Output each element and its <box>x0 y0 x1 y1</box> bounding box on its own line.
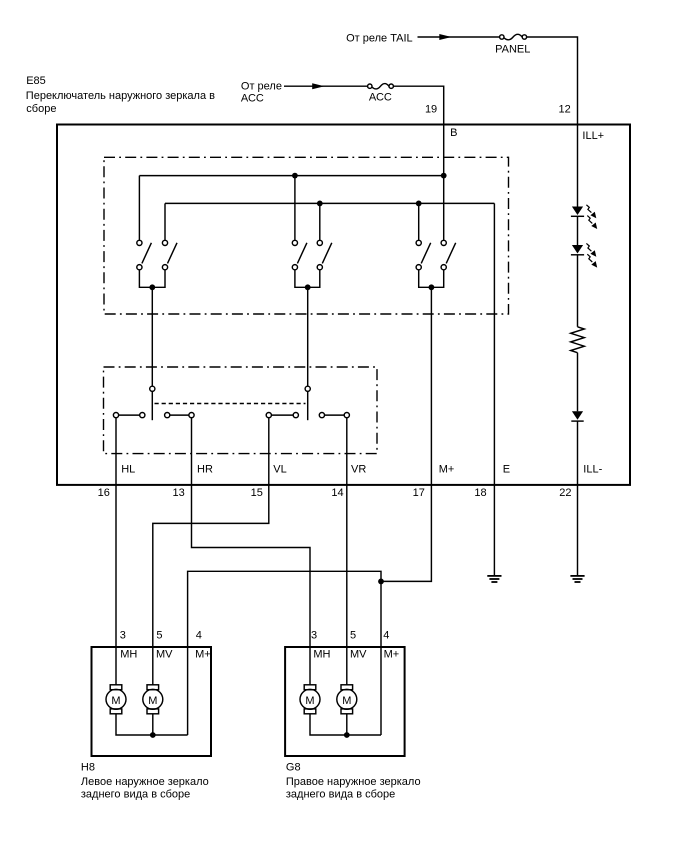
wire: right pin3 into motor MH <box>309 647 311 685</box>
svg-text:M+: M+ <box>384 649 400 661</box>
svg-text:17: 17 <box>413 487 425 499</box>
mirror H8 box <box>92 647 212 756</box>
LED D1 light arrows <box>586 205 597 229</box>
svg-text:От реле TAIL: От реле TAIL <box>346 33 413 45</box>
svg-text:E: E <box>503 464 510 476</box>
svg-text:13: 13 <box>173 487 185 499</box>
wire: pin 14 to right mirror pin 5 <box>346 485 348 646</box>
junction: switch group 2 common <box>305 284 311 290</box>
junction on bus B at switch 2 <box>292 173 298 179</box>
svg-text:Правое наружное зеркало: Правое наружное зеркало <box>286 776 421 788</box>
ground: E <box>487 576 501 582</box>
fuse ACC element <box>372 84 389 89</box>
wire: HR down to pin 13 <box>191 418 193 485</box>
fuse ACC right terminal <box>389 84 393 88</box>
switch group 2 (horizontal right) contacts <box>292 240 332 270</box>
fuse PANEL right terminal <box>522 35 526 39</box>
wire: M+ vertical to pin 17 <box>430 287 432 485</box>
svg-text:M: M <box>342 695 351 707</box>
motor MH right <box>300 685 320 714</box>
svg-text:15: 15 <box>251 487 263 499</box>
junction: switch group 3 common <box>429 284 435 290</box>
wire: pin 13 to right mirror pin 3 <box>192 485 311 646</box>
svg-text:18: 18 <box>474 487 486 499</box>
wire: E drop to switch 1 right <box>164 203 166 240</box>
junction: switch group 1 common <box>149 284 155 290</box>
dash-dot box: mirror select switch section <box>104 367 378 454</box>
svg-text:4: 4 <box>383 629 389 641</box>
wire: pin 16 to left mirror pin 3 <box>115 485 117 646</box>
pole1 left throw contacts <box>113 413 144 418</box>
resistor R (illumination) <box>571 327 585 353</box>
wire: bus B horizontal <box>139 175 443 177</box>
wire: B drop to switch 1 left <box>138 176 140 241</box>
svg-text:АСС: АСС <box>369 91 392 103</box>
select switch pole 2 terminal <box>305 386 310 391</box>
svg-text:ILL-: ILL- <box>583 464 602 476</box>
arrow: ACC direction arrow <box>312 83 324 89</box>
wire: switch group 3 common <box>419 270 444 288</box>
svg-text:M: M <box>111 695 120 707</box>
wire: bus E horizontal <box>165 202 494 204</box>
wire: PANEL fuse to ILL+ corner <box>527 37 578 124</box>
wire: left pin3 into motor MH <box>115 647 117 685</box>
svg-text:Левое наружное зеркало: Левое наружное зеркало <box>81 776 209 788</box>
wire: TAIL feed line <box>418 36 500 38</box>
wire: pin 17 M+ distribution <box>188 485 432 646</box>
svg-text:M+: M+ <box>195 649 211 661</box>
junction on bus B at B wire <box>441 173 447 179</box>
wire: switch group 1 common <box>139 270 165 288</box>
svg-text:От реле: От реле <box>241 80 282 92</box>
svg-text:5: 5 <box>350 629 356 641</box>
wire: ACC feed line <box>284 85 368 87</box>
motor MV right <box>337 685 357 714</box>
arrow: TAIL direction arrow <box>439 34 451 40</box>
fuse PANEL element <box>504 34 522 40</box>
switch group 1 (horizontal left) contacts <box>137 240 177 270</box>
wire: pin 18 to ground <box>493 485 495 575</box>
wire: left pin4 to bus <box>187 647 189 735</box>
wire: left pin5 into motor MV <box>152 647 154 685</box>
mirror G8 box <box>285 647 405 756</box>
wire: HL down to pin 16 <box>115 418 117 485</box>
wire: right pin5 into motor MV <box>346 647 348 685</box>
svg-text:VL: VL <box>273 464 286 476</box>
wire: E drop to switch 2 right <box>319 203 321 240</box>
svg-text:MH: MH <box>313 649 330 661</box>
select switch pole 2 blade <box>307 391 309 420</box>
svg-text:3: 3 <box>120 629 126 641</box>
svg-text:Переключатель наружного зеркал: Переключатель наружного зеркала в <box>26 90 215 102</box>
wire: left motors to common bus <box>116 714 188 735</box>
mechanical linkage dashed <box>155 403 306 405</box>
svg-text:G8: G8 <box>286 761 301 773</box>
switch group 3 (vertical) contacts <box>416 240 456 270</box>
svg-text:VR: VR <box>351 464 366 476</box>
wire: resistor to diode <box>577 353 579 412</box>
wire: pin 15 to left mirror pin 5 <box>153 485 269 646</box>
ground: ILL- <box>570 576 584 582</box>
wire: ACC fuse to pin 19 <box>393 86 443 123</box>
wire: switch group 2 common <box>295 270 320 288</box>
wire: B drop to switch 2 left <box>294 176 296 241</box>
svg-text:MV: MV <box>156 649 173 661</box>
svg-text:M+: M+ <box>439 464 455 476</box>
fuse PANEL left terminal <box>500 35 504 39</box>
svg-text:3: 3 <box>311 629 317 641</box>
fuse ACC left terminal <box>368 84 372 88</box>
svg-text:ILL+: ILL+ <box>582 130 604 142</box>
LED D2 light arrows <box>586 243 597 267</box>
pole1 right throw contacts <box>165 413 195 418</box>
junction: right bus <box>344 732 350 738</box>
svg-text:заднего вида в сборе: заднего вида в сборе <box>81 788 190 800</box>
svg-text:сборе: сборе <box>26 103 56 115</box>
pole2 right throw contacts <box>319 413 349 418</box>
junction on bus E at switch 2 <box>317 201 323 207</box>
svg-text:16: 16 <box>98 487 110 499</box>
svg-text:12: 12 <box>559 103 571 115</box>
motor MV left <box>143 685 163 714</box>
svg-text:M: M <box>148 695 157 707</box>
svg-text:B: B <box>450 127 457 139</box>
wire: E drop to switch 3 left <box>418 203 420 240</box>
junction: left bus <box>150 732 156 738</box>
svg-text:19: 19 <box>425 103 437 115</box>
diode D3 <box>571 411 583 421</box>
svg-text:14: 14 <box>331 487 343 499</box>
junction: M+ split <box>378 579 384 585</box>
wire: between LEDs <box>577 216 579 245</box>
wire: VL down to pin 15 <box>268 418 270 485</box>
pole2 left throw contacts <box>266 413 298 418</box>
svg-text:H8: H8 <box>81 761 95 773</box>
switch E85 outer box <box>57 125 630 485</box>
svg-text:MV: MV <box>350 649 367 661</box>
svg-text:5: 5 <box>156 629 162 641</box>
wire: B vertical pin19 to switch 3 right <box>443 124 445 241</box>
select switch pole 1 blade <box>151 391 153 420</box>
svg-text:АСС: АСС <box>241 93 264 105</box>
wire: M+ to right mirror pin 4 <box>380 581 382 646</box>
wire: LED2 to resistor <box>577 255 579 327</box>
LED D1 <box>571 207 584 217</box>
svg-text:M: M <box>305 695 314 707</box>
wire: diode to pin 22 <box>577 421 579 485</box>
select switch pole 1 terminal <box>150 386 155 391</box>
svg-text:HL: HL <box>121 464 135 476</box>
wire: group2 common down to select pole 2 <box>307 287 309 386</box>
wire: pin 22 to ground <box>577 485 579 575</box>
svg-text:E85: E85 <box>26 75 46 87</box>
junction on bus E at switch 3 <box>416 201 422 207</box>
wire: group1 common down to select pole 1 <box>151 287 153 386</box>
wire: right motors to common bus <box>310 714 381 735</box>
svg-text:PANEL: PANEL <box>495 44 530 56</box>
LED chain: ILL+ wire <box>577 124 579 207</box>
svg-text:MH: MH <box>120 649 137 661</box>
svg-text:4: 4 <box>196 629 202 641</box>
wire: VR down to pin 14 <box>346 418 348 485</box>
svg-text:22: 22 <box>559 487 571 499</box>
wire: right pin4 to bus <box>380 647 382 735</box>
motor MH left <box>106 685 126 714</box>
wire: bus E down to pin 18 <box>493 203 495 485</box>
LED D2 <box>571 245 584 255</box>
svg-text:заднего вида в сборе: заднего вида в сборе <box>286 788 395 800</box>
svg-text:HR: HR <box>197 464 213 476</box>
dash-dot box: mirror adjust switch section <box>104 157 509 314</box>
